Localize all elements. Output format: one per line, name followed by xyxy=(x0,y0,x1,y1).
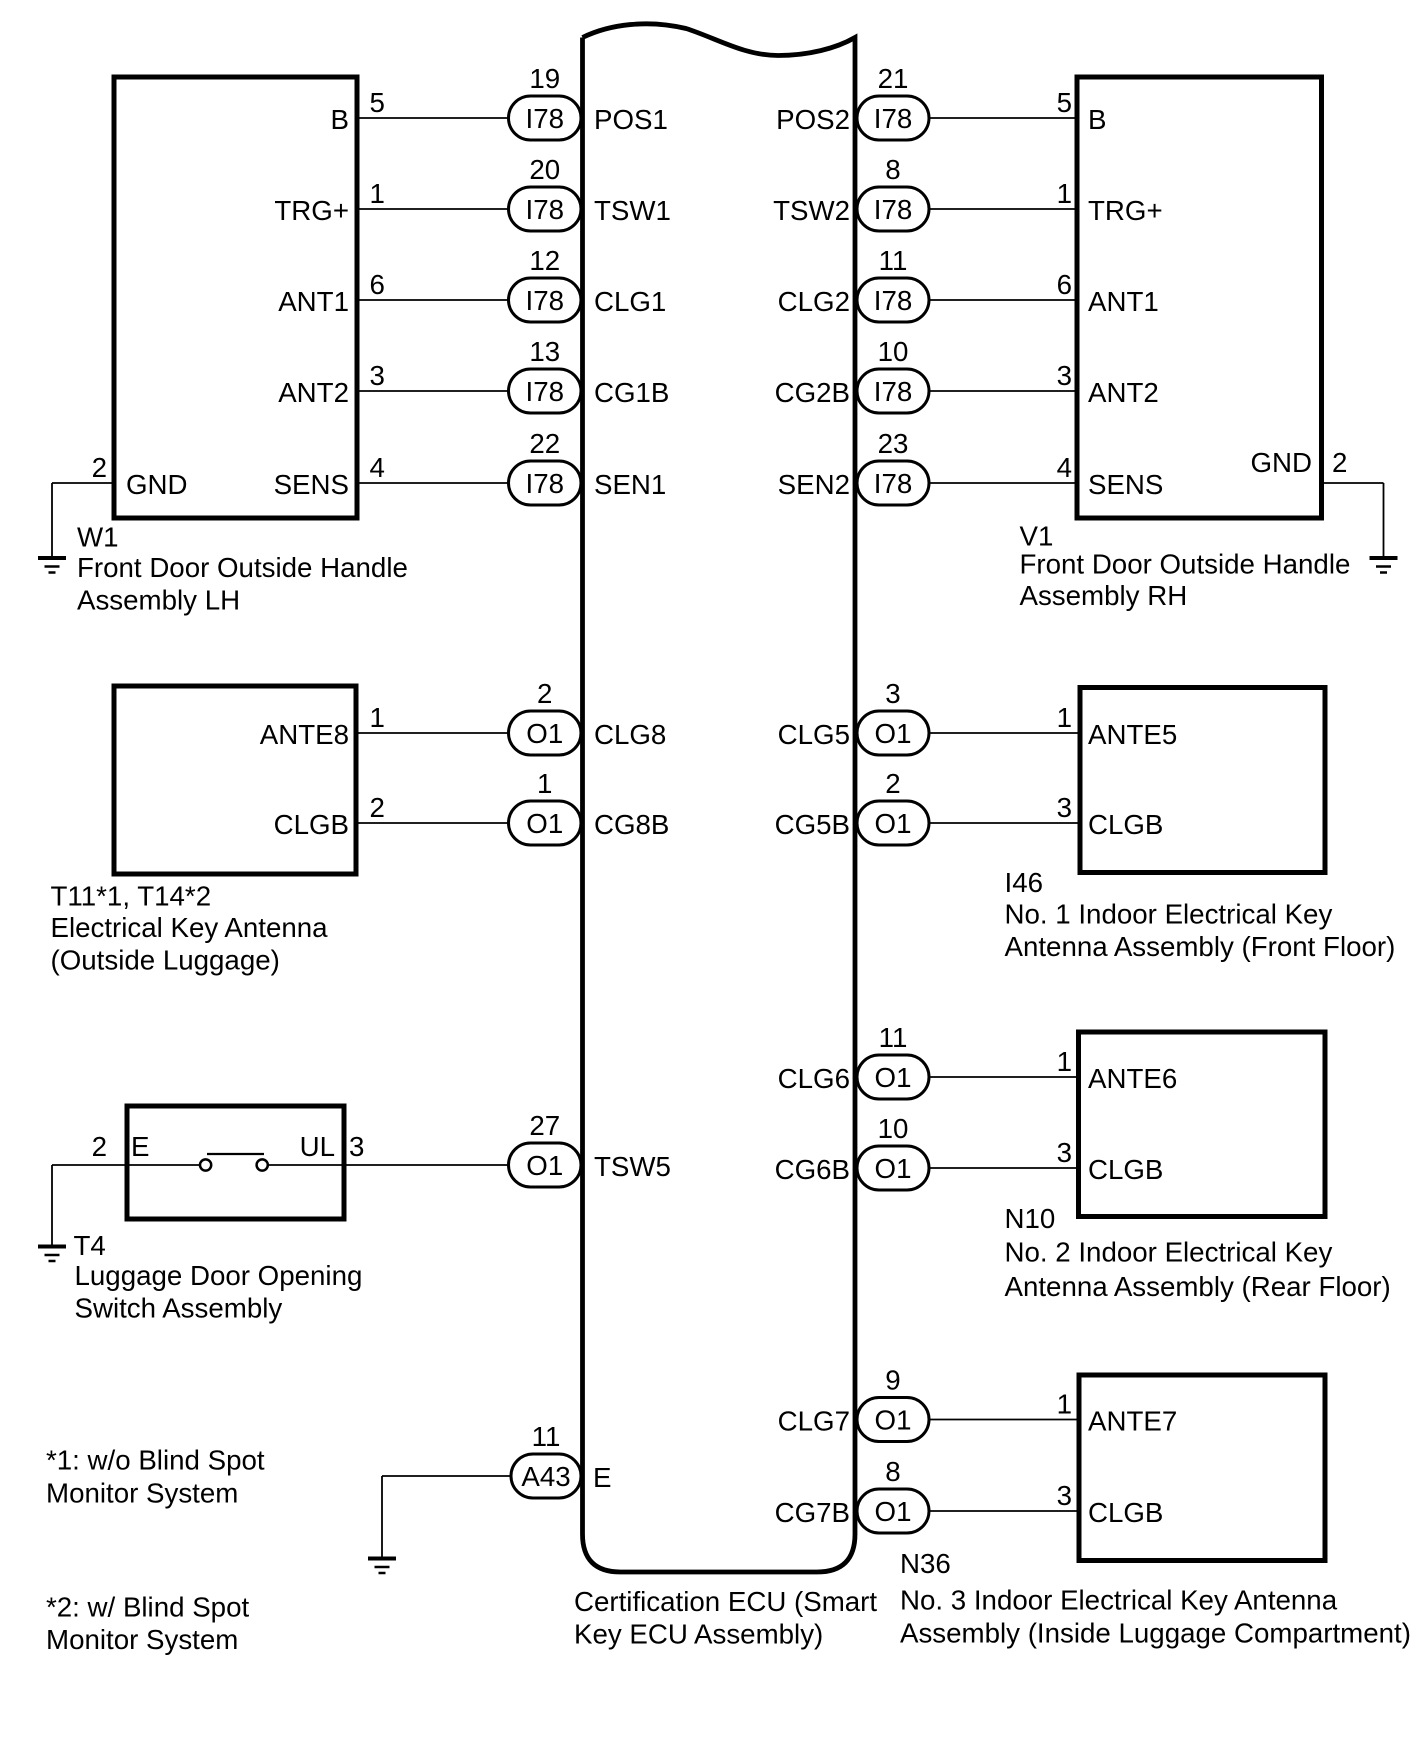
svg-text:3: 3 xyxy=(1057,1137,1072,1168)
svg-text:10: 10 xyxy=(878,1113,909,1144)
svg-text:O1: O1 xyxy=(875,1496,912,1527)
svg-text:2: 2 xyxy=(92,1131,107,1162)
svg-text:8: 8 xyxy=(885,1456,900,1487)
svg-text:TSW1: TSW1 xyxy=(594,195,671,226)
svg-text:2: 2 xyxy=(537,678,552,709)
svg-text:I78: I78 xyxy=(526,103,565,134)
svg-text:O1: O1 xyxy=(526,808,563,839)
svg-text:Antenna Assembly (Front Floor): Antenna Assembly (Front Floor) xyxy=(1005,931,1396,962)
svg-text:UL: UL xyxy=(300,1131,335,1162)
svg-text:4: 4 xyxy=(370,452,385,483)
svg-text:(Outside Luggage): (Outside Luggage) xyxy=(51,945,280,976)
svg-text:Antenna Assembly (Rear Floor): Antenna Assembly (Rear Floor) xyxy=(1005,1271,1391,1302)
svg-text:12: 12 xyxy=(529,245,560,276)
svg-text:TSW2: TSW2 xyxy=(773,195,850,226)
svg-text:Key ECU Assembly): Key ECU Assembly) xyxy=(574,1619,823,1650)
svg-text:6: 6 xyxy=(1057,269,1072,300)
svg-text:Certification ECU (Smart: Certification ECU (Smart xyxy=(574,1586,877,1617)
svg-text:ANT2: ANT2 xyxy=(278,377,349,408)
svg-text:CG6B: CG6B xyxy=(775,1154,850,1185)
svg-text:11: 11 xyxy=(879,1022,908,1053)
svg-text:SEN1: SEN1 xyxy=(594,469,666,500)
svg-text:I78: I78 xyxy=(874,285,913,316)
svg-text:W1: W1 xyxy=(77,522,119,553)
svg-text:SENS: SENS xyxy=(1088,469,1163,500)
svg-text:CLG2: CLG2 xyxy=(778,286,850,317)
svg-text:I78: I78 xyxy=(874,376,913,407)
svg-text:3: 3 xyxy=(370,360,385,391)
svg-text:2: 2 xyxy=(885,768,900,799)
svg-text:CLG6: CLG6 xyxy=(778,1063,850,1094)
svg-text:CLG5: CLG5 xyxy=(778,719,850,750)
svg-text:9: 9 xyxy=(885,1365,900,1396)
svg-text:13: 13 xyxy=(529,336,560,367)
svg-text:Assembly (Inside Luggage Compa: Assembly (Inside Luggage Compartment) xyxy=(900,1618,1411,1649)
svg-text:CG7B: CG7B xyxy=(775,1497,850,1528)
svg-text:10: 10 xyxy=(878,336,909,367)
svg-text:SENS: SENS xyxy=(274,469,349,500)
svg-text:I46: I46 xyxy=(1005,867,1044,898)
svg-text:CLG1: CLG1 xyxy=(594,286,666,317)
svg-text:Assembly RH: Assembly RH xyxy=(1020,580,1188,611)
svg-text:1: 1 xyxy=(370,178,385,209)
svg-text:ANTE5: ANTE5 xyxy=(1088,719,1177,750)
svg-text:TSW5: TSW5 xyxy=(594,1151,671,1182)
svg-text:CG5B: CG5B xyxy=(775,809,850,840)
svg-text:21: 21 xyxy=(878,63,909,94)
svg-text:I78: I78 xyxy=(526,376,565,407)
svg-text:TRG+: TRG+ xyxy=(274,195,349,226)
svg-text:Luggage Door Opening: Luggage Door Opening xyxy=(75,1260,363,1291)
svg-text:O1: O1 xyxy=(875,1153,912,1184)
svg-text:20: 20 xyxy=(529,154,560,185)
svg-text:No. 3 Indoor Electrical Key An: No. 3 Indoor Electrical Key Antenna xyxy=(900,1585,1338,1616)
svg-text:SEN2: SEN2 xyxy=(778,469,850,500)
svg-text:22: 22 xyxy=(529,428,560,459)
svg-text:O1: O1 xyxy=(875,718,912,749)
svg-text:1: 1 xyxy=(370,702,385,733)
svg-text:27: 27 xyxy=(529,1110,560,1141)
svg-text:O1: O1 xyxy=(875,1062,912,1093)
svg-text:CLGB: CLGB xyxy=(1088,1154,1163,1185)
svg-text:1: 1 xyxy=(1057,1046,1072,1077)
svg-text:I78: I78 xyxy=(874,468,913,499)
svg-text:8: 8 xyxy=(885,154,900,185)
svg-text:Front Door Outside Handle: Front Door Outside Handle xyxy=(1020,549,1351,580)
svg-text:3: 3 xyxy=(1057,360,1072,391)
svg-text:No. 2 Indoor Electrical Key: No. 2 Indoor Electrical Key xyxy=(1005,1237,1333,1268)
svg-text:O1: O1 xyxy=(526,718,563,749)
svg-text:No. 1 Indoor Electrical Key: No. 1 Indoor Electrical Key xyxy=(1005,899,1333,930)
svg-text:I78: I78 xyxy=(874,194,913,225)
svg-text:I78: I78 xyxy=(526,468,565,499)
svg-text:ANT1: ANT1 xyxy=(278,286,349,317)
svg-text:Switch Assembly: Switch Assembly xyxy=(75,1293,283,1324)
svg-text:T4: T4 xyxy=(74,1230,106,1261)
svg-text:O1: O1 xyxy=(875,808,912,839)
svg-text:I78: I78 xyxy=(874,103,913,134)
svg-text:Monitor System: Monitor System xyxy=(46,1624,238,1655)
svg-text:CLG8: CLG8 xyxy=(594,719,666,750)
svg-text:POS1: POS1 xyxy=(594,104,668,135)
svg-text:CLGB: CLGB xyxy=(1088,809,1163,840)
svg-text:11: 11 xyxy=(879,245,908,276)
svg-text:3: 3 xyxy=(349,1131,364,1162)
svg-text:ANTE6: ANTE6 xyxy=(1088,1063,1177,1094)
svg-text:5: 5 xyxy=(1057,87,1072,118)
svg-text:*2: w/ Blind Spot: *2: w/ Blind Spot xyxy=(46,1592,249,1623)
svg-text:2: 2 xyxy=(92,452,107,483)
svg-text:Monitor System: Monitor System xyxy=(46,1478,238,1509)
svg-text:O1: O1 xyxy=(875,1405,912,1436)
svg-text:Front Door Outside Handle: Front Door Outside Handle xyxy=(77,552,408,583)
svg-text:N10: N10 xyxy=(1005,1203,1056,1234)
svg-text:1: 1 xyxy=(1057,178,1072,209)
svg-text:Electrical Key Antenna: Electrical Key Antenna xyxy=(51,912,329,943)
svg-text:4: 4 xyxy=(1057,452,1072,483)
svg-text:CLGB: CLGB xyxy=(1088,1497,1163,1528)
svg-text:E: E xyxy=(593,1462,611,1493)
svg-text:11: 11 xyxy=(532,1421,561,1452)
svg-text:E: E xyxy=(131,1131,149,1162)
svg-text:5: 5 xyxy=(370,87,385,118)
svg-text:ANT2: ANT2 xyxy=(1088,377,1159,408)
svg-text:3: 3 xyxy=(1057,792,1072,823)
svg-text:19: 19 xyxy=(529,63,560,94)
svg-text:N36: N36 xyxy=(900,1548,951,1579)
svg-text:A43: A43 xyxy=(521,1461,570,1492)
svg-text:V1: V1 xyxy=(1020,521,1054,552)
svg-text:O1: O1 xyxy=(526,1150,563,1181)
svg-text:CG8B: CG8B xyxy=(594,809,669,840)
svg-text:T11*1, T14*2: T11*1, T14*2 xyxy=(51,881,212,912)
svg-text:3: 3 xyxy=(885,678,900,709)
svg-text:POS2: POS2 xyxy=(776,104,850,135)
svg-text:1: 1 xyxy=(537,768,552,799)
svg-text:1: 1 xyxy=(1057,702,1072,733)
svg-text:*1: w/o Blind Spot: *1: w/o Blind Spot xyxy=(46,1445,265,1476)
svg-text:Assembly LH: Assembly LH xyxy=(77,585,240,616)
svg-text:ANT1: ANT1 xyxy=(1088,286,1159,317)
svg-text:CLG7: CLG7 xyxy=(778,1406,850,1437)
svg-text:2: 2 xyxy=(1332,447,1347,478)
svg-text:6: 6 xyxy=(370,269,385,300)
svg-text:B: B xyxy=(331,104,349,135)
svg-text:23: 23 xyxy=(878,428,909,459)
svg-text:B: B xyxy=(1088,104,1106,135)
svg-text:I78: I78 xyxy=(526,285,565,316)
svg-text:1: 1 xyxy=(1057,1389,1072,1420)
svg-text:ANTE7: ANTE7 xyxy=(1088,1406,1177,1437)
svg-text:CLGB: CLGB xyxy=(274,809,349,840)
svg-text:2: 2 xyxy=(370,792,385,823)
svg-text:CG2B: CG2B xyxy=(775,377,850,408)
svg-text:TRG+: TRG+ xyxy=(1088,195,1163,226)
svg-text:GND: GND xyxy=(126,469,188,500)
svg-text:GND: GND xyxy=(1250,447,1312,478)
svg-text:CG1B: CG1B xyxy=(594,377,669,408)
svg-text:ANTE8: ANTE8 xyxy=(260,719,349,750)
svg-text:I78: I78 xyxy=(526,194,565,225)
svg-text:3: 3 xyxy=(1057,1480,1072,1511)
